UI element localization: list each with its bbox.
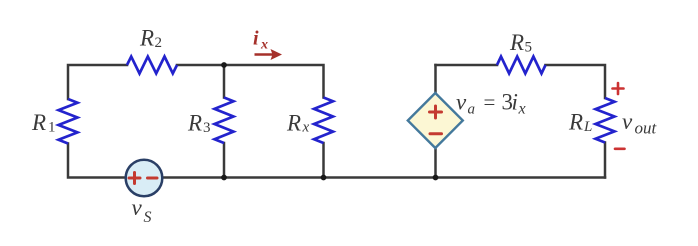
svg-text:R: R <box>187 111 202 136</box>
svg-text:x: x <box>518 101 526 118</box>
svg-text:R: R <box>139 26 154 51</box>
svg-text:R: R <box>509 30 524 55</box>
svg-text:x: x <box>260 38 268 53</box>
svg-text:5: 5 <box>525 40 533 56</box>
svg-text:out: out <box>635 119 658 138</box>
svg-text:R: R <box>286 111 301 136</box>
svg-text:R: R <box>31 110 46 135</box>
svg-text:v: v <box>132 195 143 220</box>
svg-text:i: i <box>512 90 518 115</box>
svg-text:L: L <box>583 119 592 135</box>
svg-text:=: = <box>484 90 496 114</box>
svg-text:a: a <box>468 102 476 118</box>
svg-text:R: R <box>568 110 583 135</box>
svg-text:S: S <box>144 209 152 226</box>
svg-text:3: 3 <box>203 120 211 136</box>
svg-text:v: v <box>622 109 633 134</box>
svg-text:x: x <box>302 120 310 136</box>
svg-text:2: 2 <box>155 35 163 51</box>
svg-text:i: i <box>253 28 259 50</box>
svg-text:v: v <box>456 90 467 115</box>
svg-text:1: 1 <box>48 120 56 136</box>
